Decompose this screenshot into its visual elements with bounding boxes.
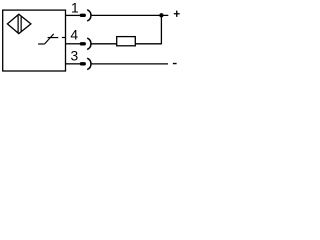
wire pin3 from box to connector (66, 63, 80, 65)
wire 3 to supply - (91, 63, 168, 65)
switch contact arm (diagonal) (45, 34, 54, 44)
diamond inner left vertical line (17, 15, 19, 33)
diamond inner right vertical line (20, 16, 22, 32)
svg-text:4: 4 (70, 28, 78, 43)
plus terminal label (174, 11, 180, 17)
connector pin (bar) wire 3 (80, 62, 86, 65)
svg-text:3: 3 (70, 49, 78, 64)
minus terminal label (173, 63, 177, 65)
load resistor (117, 37, 136, 46)
connector socket (arc) wire 1 (87, 10, 91, 21)
wire pin4 from box to connector (66, 43, 80, 45)
wire pin1 from box to connector (66, 14, 80, 16)
proximity sensor diamond symbol (7, 14, 31, 33)
switch right stub to box edge (62, 37, 66, 39)
junction node on wire 1 (159, 13, 163, 17)
connector pin (bar) wire 4 (80, 42, 86, 45)
switch crossbar (48, 37, 59, 39)
riser wire 4 to junction (160, 15, 162, 44)
wire 1 to supply + (91, 14, 168, 16)
connector socket (arc) wire 3 (87, 58, 91, 69)
connector socket (arc) wire 4 (87, 38, 91, 49)
switch contact left lead (38, 43, 44, 45)
wire from load to riser (135, 43, 161, 45)
wire 4 to load (91, 43, 117, 45)
connector pin (bar) wire 1 (80, 14, 86, 17)
sensor body box (3, 10, 66, 71)
svg-text:1: 1 (71, 1, 79, 16)
